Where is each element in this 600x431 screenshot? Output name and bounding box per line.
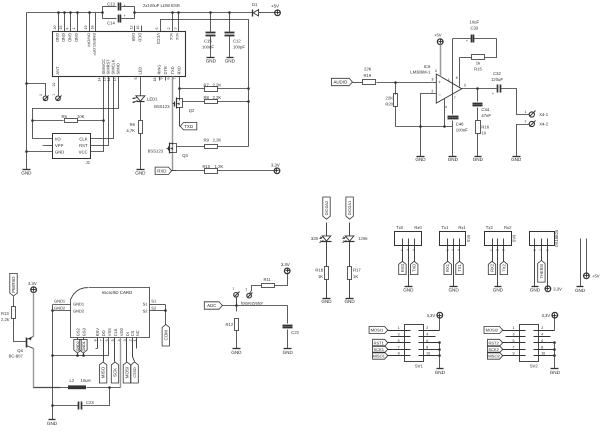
transistor Q3 BSS123: [172, 143, 174, 145]
SV2 3.3V wire: [554, 318, 556, 331]
wire R17 to GND: [349, 280, 351, 299]
svg-text:RST2: RST2: [488, 340, 499, 345]
svg-text:R11: R11: [264, 277, 272, 282]
svg-text:−: −: [438, 93, 441, 98]
svg-text:R12: R12: [226, 322, 234, 327]
pin4 ground wire: [444, 99, 446, 127]
net label THERM: [541, 253, 543, 261]
microSD CARD box: [71, 288, 150, 338]
svg-text:R6: R6: [130, 122, 136, 127]
svg-text:ANT: ANT: [55, 66, 60, 75]
rail VCCD second: [161, 20, 249, 147]
svg-text:+: +: [492, 92, 494, 96]
svg-text:6: 6: [166, 78, 170, 80]
net label RXD: [155, 167, 172, 174]
svg-text:SV5: SV5: [466, 234, 471, 242]
wire Q4 collector to L2 (grey): [34, 349, 61, 388]
svg-text:C13: C13: [107, 2, 115, 7]
connector block Tx1/Rx1: [440, 232, 466, 246]
capacitor C32 120uF: [497, 85, 499, 93]
resistor R8 2.2K: [183, 101, 205, 103]
svg-text:Q2: Q2: [189, 108, 195, 113]
svg-text:5: 5: [464, 84, 466, 88]
svg-text:2,2K: 2,2K: [213, 138, 222, 143]
svg-text:DCD: DCD: [138, 33, 143, 42]
pin GND2 wire: [53, 310, 71, 312]
svg-text:22: 22: [52, 83, 56, 87]
inductor L2 10uH: [34, 387, 69, 389]
net label MOSI: [123, 362, 130, 383]
svg-text:RST1: RST1: [374, 340, 385, 345]
svg-text:C15: C15: [204, 39, 212, 44]
svg-text:GND1: GND1: [54, 299, 66, 304]
svg-text:SV1: SV1: [415, 363, 424, 368]
svg-text:7: 7: [99, 339, 103, 341]
svg-text:8: 8: [93, 339, 97, 341]
svg-text:3.3V: 3.3V: [271, 162, 280, 167]
SV2 pin row 3/4: [506, 336, 526, 338]
svg-text:10: 10: [426, 352, 430, 356]
svg-text:TXD: TXD: [412, 264, 417, 272]
svg-text:3: 3: [513, 332, 515, 336]
svg-text:3.3V: 3.3V: [281, 262, 290, 267]
net TXD vertical (grey): [172, 77, 174, 171]
svg-text:COM: COM: [163, 330, 168, 341]
junction RXD/R7: [178, 87, 181, 90]
svg-text:10: 10: [541, 352, 545, 356]
svg-text:47nF: 47nF: [481, 113, 491, 118]
svg-text:GND: GND: [448, 157, 459, 162]
svg-text:19: 19: [84, 26, 88, 30]
GND rail microSD: [52, 311, 54, 420]
ground R16: [475, 156, 482, 158]
antenna terminal 2: [43, 96, 48, 101]
resistor R17 1K: [348, 267, 352, 280]
svg-text:GND: GND: [55, 149, 64, 154]
svg-text:13: 13: [102, 78, 106, 82]
svg-text:1: 1: [52, 94, 56, 96]
svg-text:GND: GND: [344, 299, 355, 304]
svg-text:100nF: 100nF: [456, 127, 468, 132]
capacitor C14: [103, 18, 117, 20]
supply +5V right: [584, 273, 590, 279]
GSM module IC box: [53, 32, 186, 77]
svg-text:CSSD: CSSD: [133, 367, 137, 378]
pin wires: [402, 239, 404, 253]
svg-text:VSS: VSS: [107, 328, 112, 336]
svg-text:1,2K: 1,2K: [215, 164, 224, 169]
svg-text:SCK2: SCK2: [488, 347, 499, 352]
svg-text:DO: DO: [101, 330, 106, 336]
resistor R6 4.7K: [139, 121, 143, 134]
junction dots on GND rail: [25, 82, 28, 85]
svg-text:3,3V: 3,3V: [542, 313, 551, 318]
ground C12: [227, 57, 234, 59]
svg-text:SIMCLK: SIMCLK: [110, 59, 115, 74]
svg-text:4: 4: [426, 332, 428, 336]
resistor R12: [236, 306, 238, 312]
svg-text:C33: C33: [470, 26, 478, 31]
pin ANT: [58, 77, 60, 97]
svg-text:2: 2: [451, 249, 455, 251]
svg-text:6: 6: [541, 339, 543, 343]
power rail top (VBAT): [27, 12, 103, 14]
stub NC: [136, 338, 138, 349]
wire LED to resistor R18: [326, 242, 328, 267]
svg-text:1: 1: [400, 249, 404, 251]
wire GND1 to GND2 join: [52, 305, 54, 311]
wire PWRSD to R13: [13, 297, 15, 307]
svg-text:R5: R5: [62, 114, 68, 119]
svg-text:2: 2: [128, 339, 132, 341]
svg-text:GND: GND: [530, 288, 541, 293]
wire mid pin GND: [408, 253, 410, 287]
svg-text:TX2: TX2: [501, 263, 506, 271]
svg-text:S1: S1: [151, 299, 157, 304]
ground R17: [346, 298, 354, 300]
SV2 pin row 1/2: [503, 330, 526, 332]
opamp ground rail: [396, 126, 453, 128]
svg-text:C14: C14: [107, 21, 115, 26]
svg-text:8: 8: [541, 345, 543, 349]
net RXD vertical: [179, 77, 181, 99]
svg-text:Tx1: Tx1: [442, 225, 450, 230]
ground R6: [137, 169, 145, 171]
svg-text:SCK1: SCK1: [373, 347, 384, 352]
svg-text:R7: R7: [204, 82, 210, 87]
svg-text:GND: GND: [225, 59, 236, 64]
svg-text:CLK: CLK: [79, 137, 87, 142]
capacitor C34 47nF: [477, 89, 479, 102]
svg-text:1: 1: [445, 249, 449, 251]
ground C15: [207, 57, 215, 59]
svg-text:7: 7: [173, 78, 177, 80]
pin wires: [447, 239, 449, 253]
wire C32 to X4-1: [501, 89, 530, 115]
svg-text:RING: RING: [156, 65, 161, 75]
svg-text:R13: R13: [1, 311, 9, 316]
pin header SV2 box: [520, 325, 539, 362]
svg-text:3,3V: 3,3V: [553, 287, 562, 292]
svg-text:2: 2: [426, 326, 428, 330]
SV2 pin row 7/8: [503, 349, 526, 351]
svg-text:6: 6: [155, 28, 159, 30]
svg-text:10uH: 10uH: [81, 378, 91, 383]
svg-text:2: 2: [406, 249, 410, 251]
stub RSV: [97, 338, 99, 349]
svg-text:NC: NC: [135, 330, 140, 336]
svg-text:9: 9: [398, 352, 400, 356]
svg-text:3: 3: [173, 28, 177, 30]
pin VCC 2 wire: [172, 13, 174, 32]
svg-text:L2: L2: [70, 378, 75, 383]
svg-text:VCC: VCC: [175, 33, 179, 41]
svg-text:1: 1: [398, 326, 400, 330]
svg-text:5: 5: [513, 339, 515, 343]
GND pin wires to rail: [58, 13, 60, 32]
svg-text:R10: R10: [203, 164, 211, 169]
svg-text:+: +: [438, 79, 441, 84]
svg-text:GND: GND: [283, 350, 294, 355]
capacitor C23: [78, 402, 80, 410]
transistor Q4 BC-807: [26, 338, 28, 348]
pin RING stub: [159, 77, 161, 81]
wire +5V to pin6 (grey): [440, 45, 442, 77]
svg-text:12: 12: [130, 26, 134, 30]
svg-text:C23: C23: [86, 400, 94, 405]
svg-text:X4-2: X4-2: [539, 122, 549, 127]
svg-text:7: 7: [454, 96, 456, 100]
svg-text:D1: D1: [252, 2, 258, 7]
svg-text:EMERG.OFF: EMERG.OFF: [92, 33, 96, 56]
svg-text:2: 2: [39, 94, 43, 96]
wire antenna2 to GND rail: [27, 84, 46, 97]
pin LED wire: [140, 77, 142, 96]
svg-text:PWRSD: PWRSD: [11, 277, 16, 293]
svg-text:Q3: Q3: [182, 153, 188, 158]
svg-text:AUDIO: AUDIO: [333, 80, 347, 85]
svg-text:1: 1: [525, 110, 527, 114]
net label CSSD: [131, 362, 138, 383]
svg-text:9: 9: [160, 78, 164, 80]
SV1 pin row 9/10: [388, 355, 411, 357]
pin1 pin7 wire C46: [452, 39, 454, 115]
svg-text:GND1: GND1: [73, 302, 85, 307]
svg-text:DIODA1: DIODA1: [347, 201, 352, 216]
ground spare: [577, 286, 584, 288]
svg-text:TXD: TXD: [170, 66, 175, 74]
junction AUDIO/R20: [394, 81, 397, 84]
net label GND1 vertical: [83, 338, 85, 340]
junction RXD bottom: [172, 170, 177, 172]
svg-text:SV6: SV6: [512, 234, 517, 242]
svg-text:Rx1: Rx1: [458, 225, 466, 230]
svg-text:C12: C12: [233, 39, 241, 44]
svg-text:C22: C22: [291, 330, 299, 335]
transistor Q2 BSS123: [179, 99, 181, 101]
svg-text:GND: GND: [21, 171, 32, 176]
svg-text:SV2: SV2: [530, 363, 539, 368]
svg-text:SIMIO: SIMIO: [116, 63, 121, 74]
svg-text:GND: GND: [473, 157, 484, 162]
wire inverting input: [421, 94, 437, 127]
svg-text:GND: GND: [47, 421, 58, 426]
svg-text:MISO1: MISO1: [372, 353, 385, 358]
ground GND left rail: [23, 169, 31, 171]
wire S1 to COM: [165, 305, 167, 325]
svg-text:+: +: [124, 14, 126, 18]
resistor R16 10: [476, 121, 481, 134]
ground R12: [233, 348, 241, 350]
SV1 GND bus: [439, 343, 441, 369]
svg-text:GND2: GND2: [73, 309, 85, 314]
svg-text:120uF: 120uF: [491, 77, 503, 82]
wire J1 GND pin to rail: [27, 151, 53, 153]
resistor R18 1K: [325, 267, 329, 280]
SV2 pin row 5/6: [503, 342, 526, 344]
svg-text:THERM: THERM: [539, 264, 544, 278]
wire LED1 to R6: [140, 102, 142, 121]
pin GND1 wire: [53, 304, 71, 306]
svg-text:GS3: GS3: [81, 327, 86, 336]
net label ADC: [204, 302, 222, 309]
LED DIODA1: [345, 236, 354, 241]
wire cap bank left rail: [102, 7, 104, 19]
ground SV2: [551, 368, 559, 370]
svg-text:GND2: GND2: [54, 306, 66, 311]
spare wire +5V right: [586, 239, 588, 273]
connector block Tx2/Rx2: [485, 232, 512, 246]
svg-text:12: 12: [107, 78, 111, 82]
wire DIODA2 to LED: [326, 223, 328, 236]
left GND rail: [26, 13, 28, 170]
photoresistor terminal 1: [234, 293, 239, 298]
svg-text:CLK: CLK: [113, 328, 118, 336]
net label GND2 vertical: [77, 338, 79, 340]
svg-text:DI: DI: [125, 332, 130, 336]
svg-text:3: 3: [398, 332, 400, 336]
svg-text:MISO2: MISO2: [487, 353, 500, 358]
SV2 labels: [484, 327, 503, 334]
net label AUDIO: [331, 78, 352, 85]
svg-text:VCC: VCC: [79, 149, 88, 154]
SV1 pin row 7/8: [388, 349, 411, 351]
resistor R13 2.2k: [12, 307, 16, 319]
wire D1 to +5V: [259, 12, 275, 14]
supply +5V opamp: [437, 39, 443, 45]
pin S1 wire: [150, 304, 166, 306]
svg-text:R19: R19: [364, 73, 372, 78]
resistor R15 1k: [472, 55, 485, 60]
svg-text:3: 3: [431, 78, 433, 82]
wire C33 to R15: [485, 39, 497, 58]
svg-text:GND: GND: [206, 59, 217, 64]
svg-text:VDD: VDD: [119, 328, 124, 337]
svg-text:X4-1: X4-1: [539, 112, 549, 117]
wire DI to MOSI label: [126, 338, 128, 362]
wire terminal1 down: [236, 298, 238, 306]
connector block DS18B20: [530, 232, 555, 246]
svg-text:2: 2: [525, 120, 527, 124]
svg-text:GND: GND: [231, 350, 242, 355]
svg-text:22K: 22K: [386, 95, 394, 100]
net label RX1: [447, 253, 449, 262]
svg-text:100pF: 100pF: [233, 45, 245, 50]
svg-text:TX1: TX1: [457, 263, 462, 271]
wire DIODA1 to LED: [349, 223, 351, 236]
svg-text:6: 6: [435, 69, 437, 73]
SV1 pin row 1/2: [388, 330, 411, 332]
svg-text:1K: 1K: [353, 274, 358, 279]
supply 3.3V Q4: [31, 287, 37, 293]
svg-text:I/O: I/O: [55, 137, 61, 142]
svg-text:R8: R8: [204, 95, 210, 100]
op-amp IC6 LM386M-1 triangle: [436, 74, 462, 103]
svg-text:LED1: LED1: [147, 97, 158, 102]
svg-text:2: 2: [539, 249, 543, 251]
net label TX2: [503, 253, 505, 262]
net SIMRST wire: [91, 77, 109, 146]
wire CLK to SCK label: [114, 338, 116, 362]
svg-text:1: 1: [490, 249, 494, 251]
svg-text:328: 328: [311, 236, 319, 241]
svg-text:ADC: ADC: [207, 303, 216, 308]
svg-text:1: 1: [448, 78, 450, 82]
svg-text:22K: 22K: [364, 67, 372, 72]
wire mid pin GND: [497, 253, 499, 287]
svg-text:SCK: SCK: [113, 368, 118, 377]
supply 3,3V SV2: [552, 312, 558, 318]
supply 3,3V SV1: [437, 312, 443, 318]
svg-text:GND: GND: [493, 288, 504, 293]
resistor R20 22K: [395, 83, 397, 95]
svg-text:LED: LED: [138, 67, 143, 75]
svg-text:TXD: TXD: [184, 124, 193, 129]
svg-text:4,7K: 4,7K: [126, 128, 135, 133]
capacitor C33 10uF gain loop: [453, 38, 472, 40]
net label RX2: [492, 253, 494, 262]
SIM holder J1 box: [53, 134, 91, 159]
svg-text:MISO: MISO: [101, 366, 106, 378]
ground X4: [513, 156, 521, 158]
svg-text:5: 5: [398, 339, 400, 343]
wire DS18B20 pin1 GND: [534, 253, 536, 287]
svg-text:DIODA2: DIODA2: [324, 201, 329, 216]
net label DIODA1: [346, 197, 353, 219]
wire L2 node to C23: [83, 388, 110, 406]
capacitor C15 100nF: [210, 13, 212, 32]
capacitor C46 100nF: [448, 116, 459, 118]
svg-text:1206: 1206: [358, 236, 368, 241]
svg-text:GS2: GS2: [76, 327, 81, 336]
ground R18: [323, 298, 331, 300]
svg-text:2x100uF LOW ESR: 2x100uF LOW ESR: [143, 3, 180, 8]
pin S2 wire: [150, 310, 166, 312]
svg-text:S1: S1: [143, 302, 149, 307]
svg-text:DS18B20: DS18B20: [554, 229, 559, 247]
wire R13 to Q4 base: [14, 319, 27, 342]
svg-text:R9: R9: [204, 138, 210, 143]
svg-text:3: 3: [501, 249, 505, 251]
antenna terminal 1: [56, 96, 61, 101]
svg-text:Q4: Q4: [17, 348, 23, 353]
ground serial: [450, 286, 458, 288]
wire cap bank right rail: [134, 7, 136, 19]
svg-text:R20: R20: [385, 101, 393, 106]
svg-text:GND: GND: [550, 370, 561, 375]
svg-text:11: 11: [112, 78, 116, 82]
wire mid pin GND: [453, 253, 455, 287]
pin DCD stub: [141, 26, 143, 32]
pin header SV1 box: [405, 325, 424, 362]
pin EMERG.OFF wire: [95, 13, 97, 32]
svg-text:MOSI2: MOSI2: [486, 328, 499, 333]
net SIMCLK wire: [91, 77, 114, 139]
pin DSR stub: [134, 26, 136, 32]
svg-text:MOSI1: MOSI1: [371, 328, 384, 333]
net label TXD: [179, 123, 181, 127]
photoresistor terminal 2: [247, 293, 252, 298]
wire DS18B20 pin3 to 3.3V: [547, 253, 549, 287]
resistor R10 1.2K: [177, 170, 205, 172]
svg-text:R17: R17: [353, 268, 361, 273]
wire DO to MISO label: [103, 338, 105, 362]
svg-text:4: 4: [66, 28, 70, 30]
net I/O wire (SIMIO): [33, 77, 119, 139]
SV1 3.3V wire: [439, 318, 441, 331]
svg-text:BSS123: BSS123: [154, 104, 170, 109]
svg-text:3: 3: [457, 249, 461, 251]
